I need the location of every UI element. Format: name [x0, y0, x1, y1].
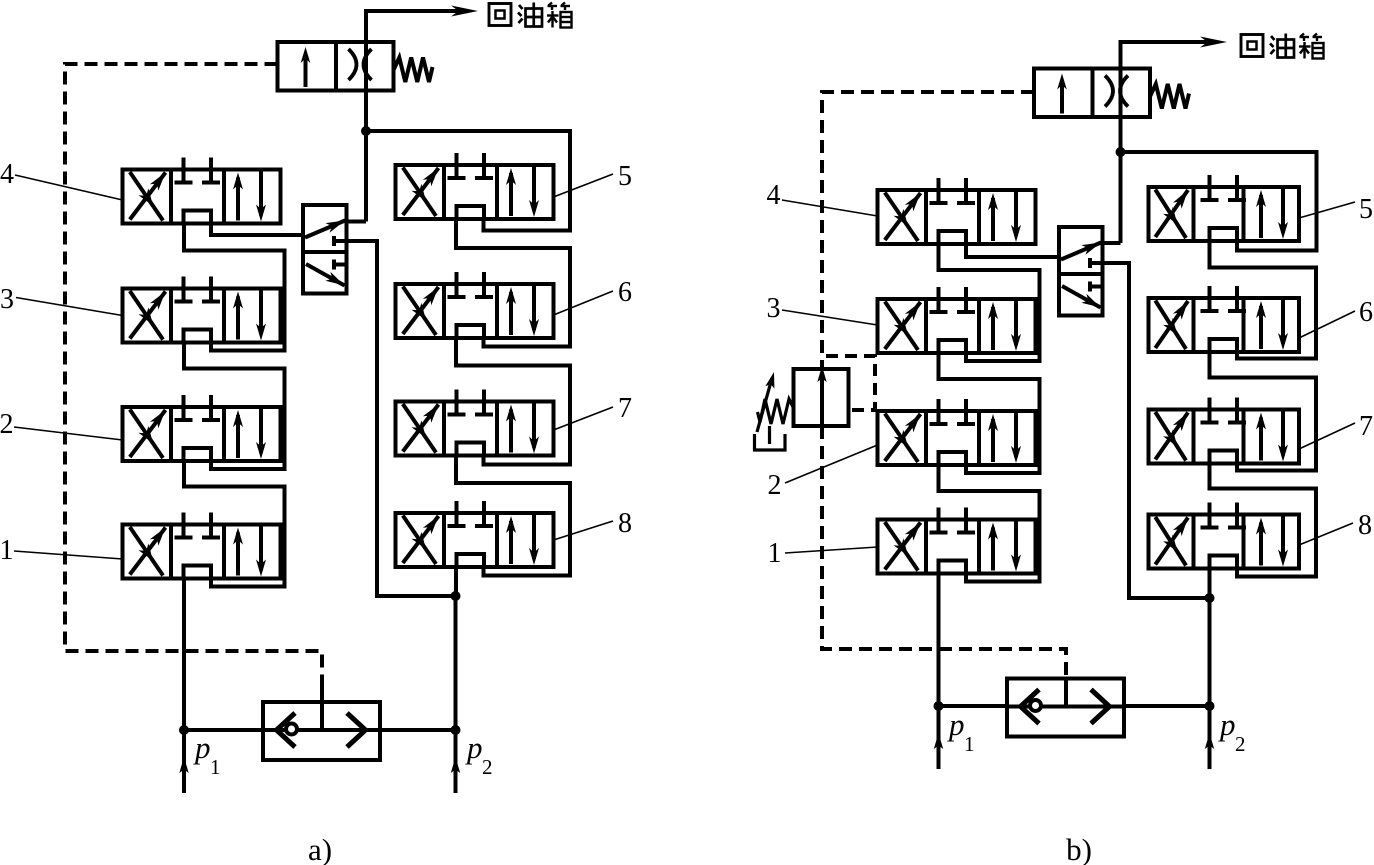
leader 6 b	[1299, 311, 1355, 338]
leader 4 a	[15, 175, 123, 200]
wire: main line to selector a	[347, 220, 367, 224]
dashed pilot line b lower	[822, 426, 1066, 677]
leader 2 a	[14, 427, 123, 440]
unloading relief valve b	[1034, 69, 1189, 118]
svg-text:1: 1	[0, 535, 14, 566]
wire: valve1 down to p1 a	[182, 579, 186, 731]
svg-text:6: 6	[618, 277, 632, 308]
valve 3 b	[878, 287, 1036, 353]
svg-text:p: p	[465, 730, 483, 765]
dashed pilot line b upper	[822, 92, 1034, 369]
wire: selector left port a	[211, 224, 303, 236]
svg-text:5: 5	[1359, 194, 1373, 225]
leader 1 a	[14, 551, 123, 559]
junction dot b p2 node	[1205, 593, 1215, 603]
wire: feed to right column a	[366, 131, 570, 231]
svg-text:3: 3	[767, 293, 781, 324]
junction dot p2 a	[451, 725, 461, 735]
wire: valve3 to valve2 b	[939, 353, 1040, 473]
shuttle valve b	[1007, 679, 1124, 737]
valve 8 a	[396, 501, 554, 567]
leader 1 b	[785, 547, 878, 553]
wire: valve6 to valve7 a	[456, 338, 570, 465]
wire: valve8 down to p2 node a	[454, 567, 458, 596]
wire: tank return line b	[1121, 42, 1214, 243]
spring of relief valve b	[758, 399, 794, 424]
arrowhead to tank b	[1200, 37, 1227, 48]
wire: pilot into shuttle a	[320, 679, 324, 731]
wire: main line to selector b	[1103, 241, 1121, 245]
valve 6 a	[396, 272, 554, 338]
svg-text:4: 4	[0, 159, 14, 190]
svg-text:2: 2	[1235, 732, 1246, 756]
svg-text:2: 2	[0, 409, 14, 440]
svg-text:b): b)	[1066, 832, 1092, 865]
wire: p1 line a	[184, 728, 263, 732]
valve 7 b	[1149, 398, 1300, 464]
p1 supply arrow b	[934, 706, 943, 769]
wire: valve7 to valve8 b	[1210, 463, 1317, 577]
svg-text:7: 7	[1359, 411, 1373, 442]
wire: pilot into shuttle b	[1064, 677, 1068, 707]
svg-text:8: 8	[1358, 510, 1372, 541]
junction dot p2 b	[1205, 701, 1215, 711]
adjust arrow across spring b	[757, 371, 779, 432]
wire: valve6 to valve7 b	[1210, 352, 1317, 471]
junction dot p1 a	[179, 725, 189, 735]
tank symbol b	[755, 434, 786, 450]
svg-text:a): a)	[308, 832, 332, 865]
svg-text:1: 1	[964, 732, 975, 756]
p1 supply arrow a	[179, 730, 188, 793]
selector valve b	[1059, 227, 1103, 316]
leader 2 b	[785, 445, 878, 483]
svg-text:8: 8	[618, 508, 632, 539]
svg-text:3: 3	[0, 284, 14, 315]
wire: p2 line a	[380, 728, 456, 732]
wire: valve4 to valve3 a	[184, 224, 285, 351]
wire: valve8 down to p2 node b	[1208, 569, 1212, 599]
svg-text:2: 2	[482, 755, 493, 779]
svg-text:5: 5	[618, 161, 632, 192]
svg-text:1: 1	[210, 755, 221, 779]
junction dot b top	[1116, 147, 1126, 157]
leader 5 b	[1299, 202, 1355, 218]
dashed bypass loop around relief b	[826, 356, 875, 410]
label: hui-you-xiang (return to oil tank) b	[1241, 34, 1324, 59]
junction dot p1 b	[934, 701, 944, 711]
valve 1 b	[878, 508, 1036, 574]
svg-text:p: p	[193, 730, 211, 765]
svg-text:7: 7	[618, 393, 632, 424]
wire: selector left port b	[966, 244, 1059, 257]
shuttle valve a	[263, 702, 380, 760]
valve 6 b	[1149, 286, 1300, 352]
leader 7 b	[1299, 423, 1355, 449]
valve 2 b	[878, 399, 1036, 465]
wire: valve7 to valve8 a	[456, 456, 570, 576]
svg-text:p: p	[947, 707, 965, 742]
wire: p2 riser b	[1208, 598, 1212, 706]
svg-text:6: 6	[1359, 297, 1373, 328]
valve 1 a	[123, 513, 281, 579]
wire: feed to right column b	[1121, 152, 1317, 251]
valve 4 b	[878, 178, 1036, 244]
svg-text:p: p	[1218, 707, 1236, 742]
leader 8 a	[554, 521, 614, 540]
wire: tank return line a	[366, 11, 464, 222]
unloading relief valve a	[278, 42, 433, 91]
p2 supply arrow b	[1205, 706, 1214, 769]
leader 6 a	[554, 291, 614, 315]
wire: p2 riser a	[454, 596, 458, 730]
leader 8 b	[1299, 523, 1353, 545]
valve 3 a	[123, 277, 281, 343]
leader 3 a	[16, 298, 123, 316]
wire: selector side port down to p2 node b	[1103, 263, 1210, 598]
wire: selector side port down to p2 node a	[347, 241, 456, 596]
wire: valve2 to valve1 b	[939, 465, 1040, 582]
arrowhead of relief arrow b	[817, 366, 826, 382]
leader 5 a	[554, 174, 614, 197]
leader 3 b	[782, 310, 878, 325]
wire: valve5 to valve6 b	[1210, 241, 1317, 359]
label: hui-you-xiang (return to oil tank) a	[489, 3, 572, 28]
wire: valve3 to valve2 a	[184, 343, 285, 470]
valve 7 a	[396, 390, 554, 456]
svg-text:1: 1	[768, 538, 782, 569]
remote pressure relief valve b	[794, 369, 849, 426]
svg-text:2: 2	[768, 470, 782, 501]
label p1 b	[947, 707, 975, 756]
junction dot a top	[361, 126, 371, 136]
dashed pilot line a (left loop)	[65, 64, 322, 679]
wire: p2 line b	[1124, 704, 1210, 708]
leader 4 b	[782, 200, 878, 216]
wire: valve2 to valve1 a	[184, 461, 285, 587]
wire: valve4 to valve3 b	[939, 244, 1040, 361]
wire: p1 line b	[939, 704, 1008, 708]
valve 5 a	[396, 153, 554, 219]
label p2 a	[465, 730, 493, 779]
valve 4 a	[123, 158, 281, 224]
valve 8 b	[1149, 503, 1300, 569]
wire: valve1 down to p1 b	[937, 574, 941, 707]
label p1 a	[193, 730, 221, 779]
leader 7 a	[554, 407, 614, 430]
arrowhead to tank a	[451, 6, 478, 17]
wire: valve5 to valve6 a	[456, 219, 570, 347]
valve 5 b	[1149, 175, 1300, 241]
valve 2 a	[123, 395, 281, 461]
selector valve a	[303, 205, 347, 294]
svg-text:4: 4	[767, 180, 781, 211]
p2 supply arrow a	[451, 730, 460, 793]
junction dot a p2 node	[451, 591, 461, 601]
drain line to tank b	[768, 426, 771, 444]
label p2 b	[1218, 707, 1246, 756]
